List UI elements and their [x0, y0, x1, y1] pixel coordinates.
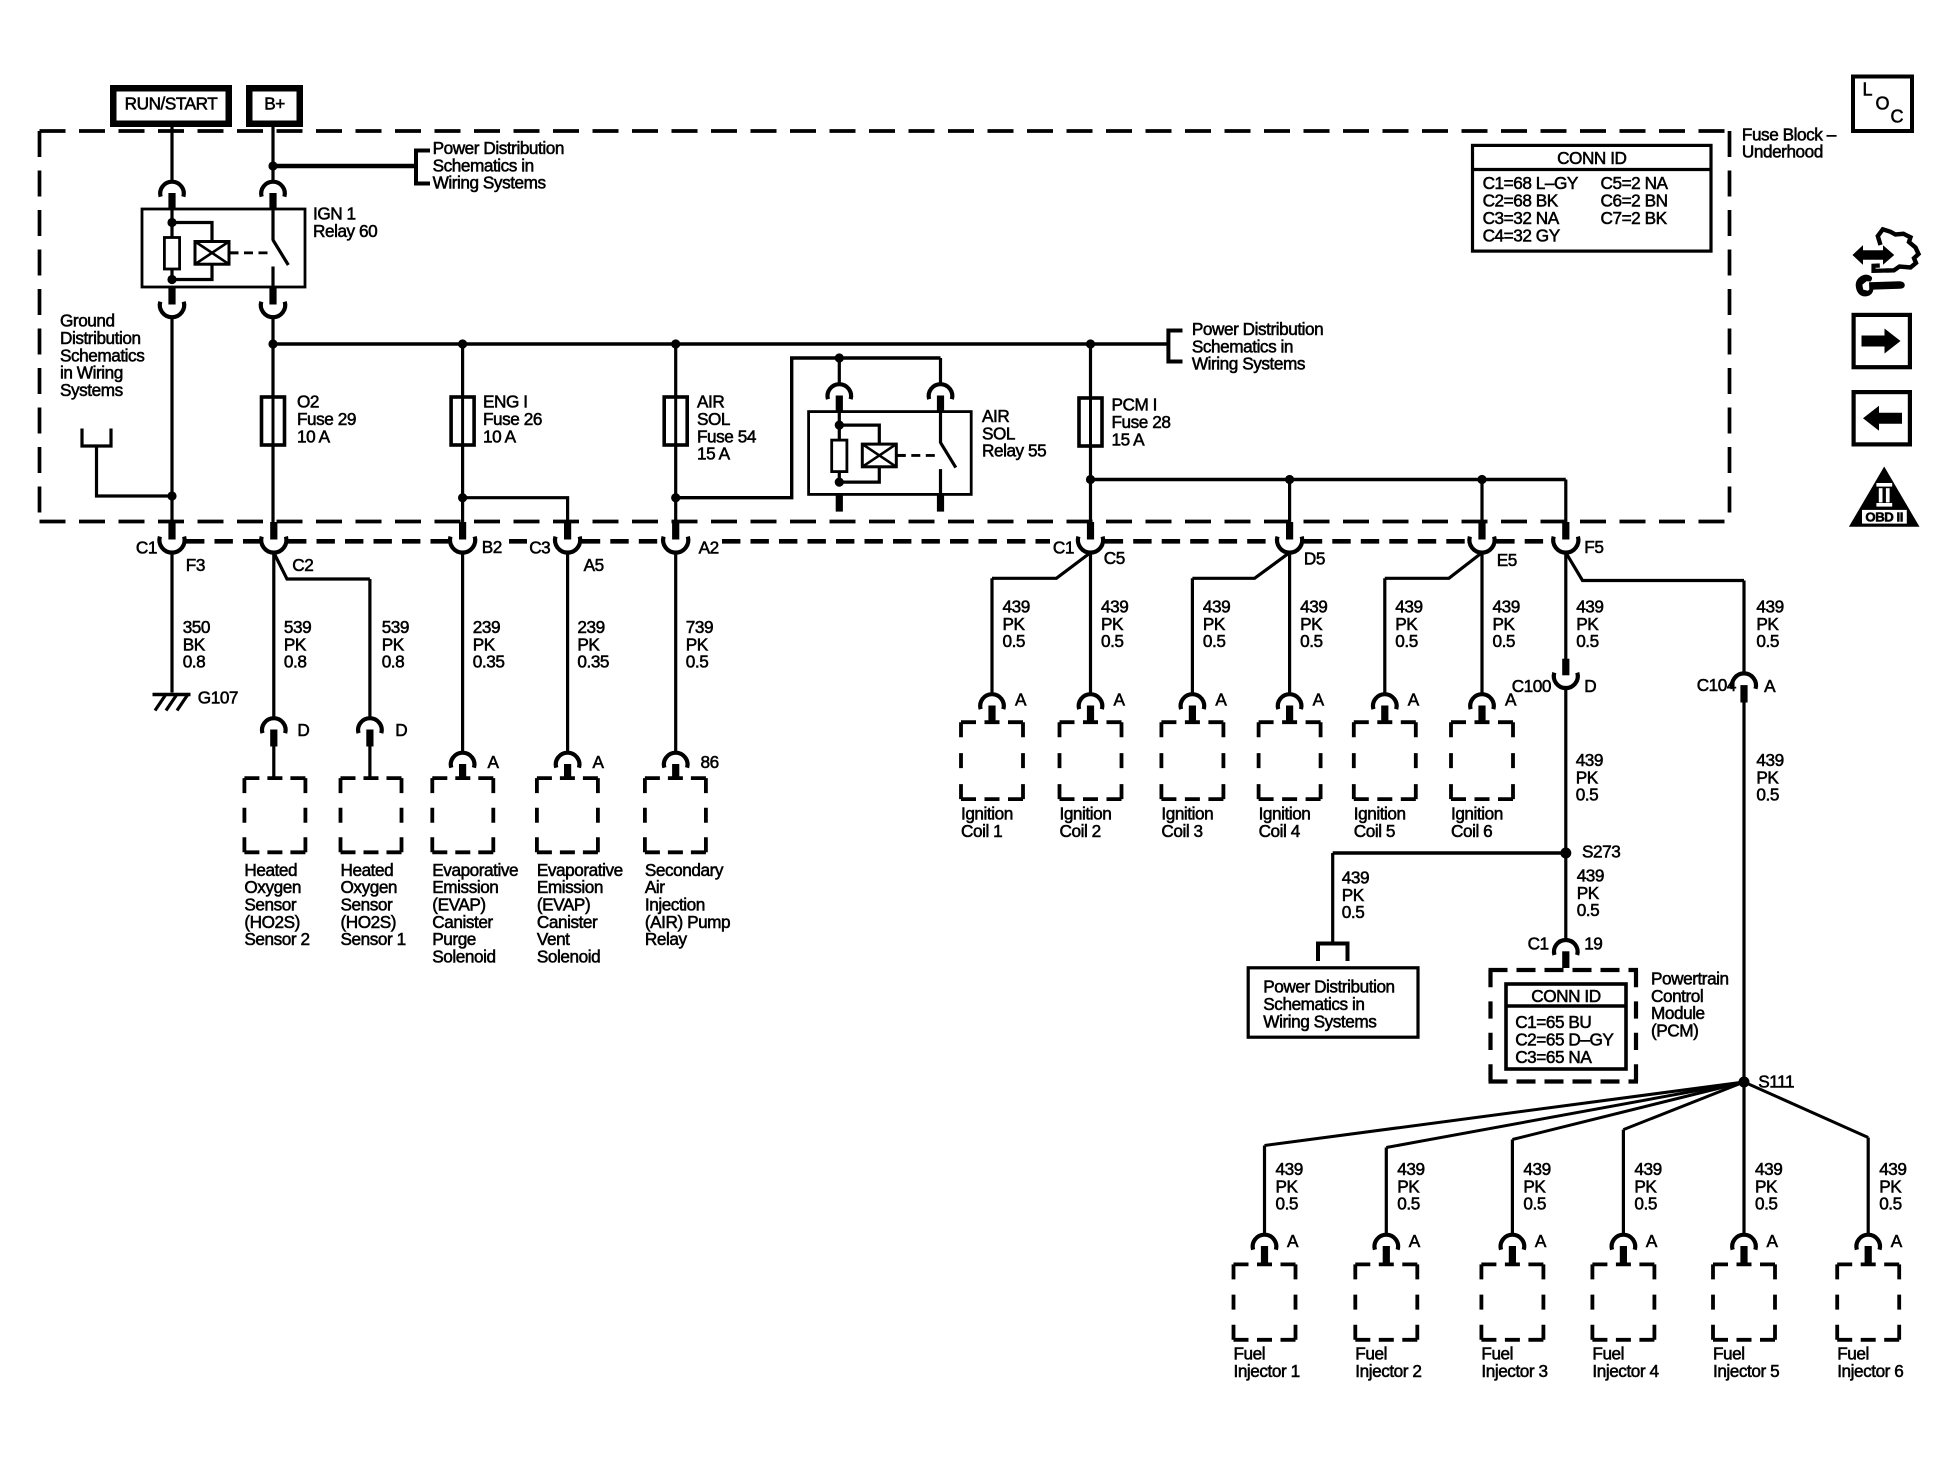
- svg-text:A: A: [1767, 1231, 1779, 1251]
- svg-text:A: A: [1409, 1231, 1421, 1251]
- svg-text:D: D: [1584, 676, 1596, 696]
- svg-text:86: 86: [701, 752, 719, 772]
- svg-text:C100: C100: [1512, 676, 1551, 696]
- svg-text:OBD II: OBD II: [1865, 510, 1903, 525]
- svg-text:G107: G107: [198, 688, 238, 708]
- svg-text:19: 19: [1584, 934, 1602, 954]
- svg-text:A: A: [1535, 1231, 1547, 1251]
- svg-text:CONN ID: CONN ID: [1531, 986, 1600, 1006]
- svg-text:D: D: [395, 720, 407, 740]
- svg-text:C5: C5: [1104, 548, 1125, 568]
- svg-text:D5: D5: [1304, 548, 1325, 568]
- svg-text:C1: C1: [1053, 537, 1074, 557]
- svg-text:A: A: [1313, 690, 1325, 710]
- svg-text:RUN/START: RUN/START: [125, 94, 219, 114]
- svg-text:A: A: [1408, 690, 1420, 710]
- svg-text:A: A: [1646, 1231, 1658, 1251]
- svg-text:C: C: [1891, 107, 1904, 127]
- svg-text:A: A: [1015, 690, 1027, 710]
- svg-text:A: A: [1287, 1231, 1299, 1251]
- svg-text:C104: C104: [1697, 675, 1737, 695]
- svg-text:F3: F3: [186, 555, 205, 575]
- svg-text:C1: C1: [1528, 934, 1549, 954]
- svg-text:C1: C1: [136, 537, 157, 557]
- svg-text:CONN ID: CONN ID: [1557, 148, 1626, 168]
- svg-text:Fuse Block –Underhood: Fuse Block –Underhood: [1742, 124, 1837, 161]
- svg-text:C3: C3: [529, 537, 550, 557]
- svg-text:A: A: [1114, 690, 1126, 710]
- svg-text:F5: F5: [1584, 537, 1603, 557]
- svg-text:A: A: [1215, 690, 1227, 710]
- svg-text:E5: E5: [1497, 550, 1517, 570]
- svg-text:B+: B+: [264, 94, 285, 114]
- svg-text:S111: S111: [1758, 1071, 1794, 1091]
- svg-text:A: A: [1891, 1231, 1903, 1251]
- svg-text:C5=2 NAC6=2 BNC7=2 BK: C5=2 NAC6=2 BNC7=2 BK: [1601, 173, 1669, 228]
- svg-text:A: A: [593, 752, 605, 772]
- svg-text:B2: B2: [482, 537, 502, 557]
- svg-text:A: A: [1764, 676, 1776, 696]
- svg-text:O: O: [1876, 94, 1890, 114]
- svg-text:L: L: [1863, 80, 1873, 100]
- svg-text:A5: A5: [584, 555, 604, 575]
- svg-text:D: D: [297, 720, 309, 740]
- svg-text:S273: S273: [1582, 841, 1620, 861]
- svg-text:A: A: [488, 752, 500, 772]
- svg-text:C2: C2: [292, 555, 313, 575]
- svg-text:A2: A2: [699, 537, 719, 557]
